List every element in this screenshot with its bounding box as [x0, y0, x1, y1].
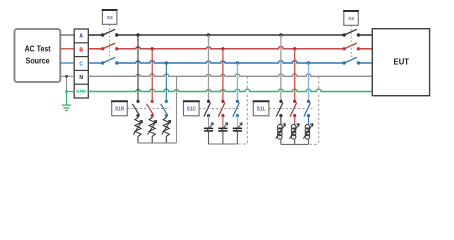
- svg-text:EUT: EUT: [394, 58, 410, 67]
- svg-text:N: N: [79, 75, 83, 81]
- svg-text:AC Test: AC Test: [25, 45, 51, 54]
- svg-text:S1R: S1R: [115, 107, 125, 113]
- svg-text:B: B: [79, 48, 83, 54]
- svg-text:S1C: S1C: [187, 107, 197, 113]
- svg-text:GND: GND: [76, 89, 87, 93]
- svg-text:S3: S3: [107, 15, 113, 21]
- svg-text:Source: Source: [26, 56, 50, 65]
- svg-text:A: A: [79, 34, 83, 40]
- svg-text:C: C: [79, 61, 83, 67]
- svg-text:S1L: S1L: [257, 107, 266, 113]
- svg-text:S2: S2: [348, 16, 354, 22]
